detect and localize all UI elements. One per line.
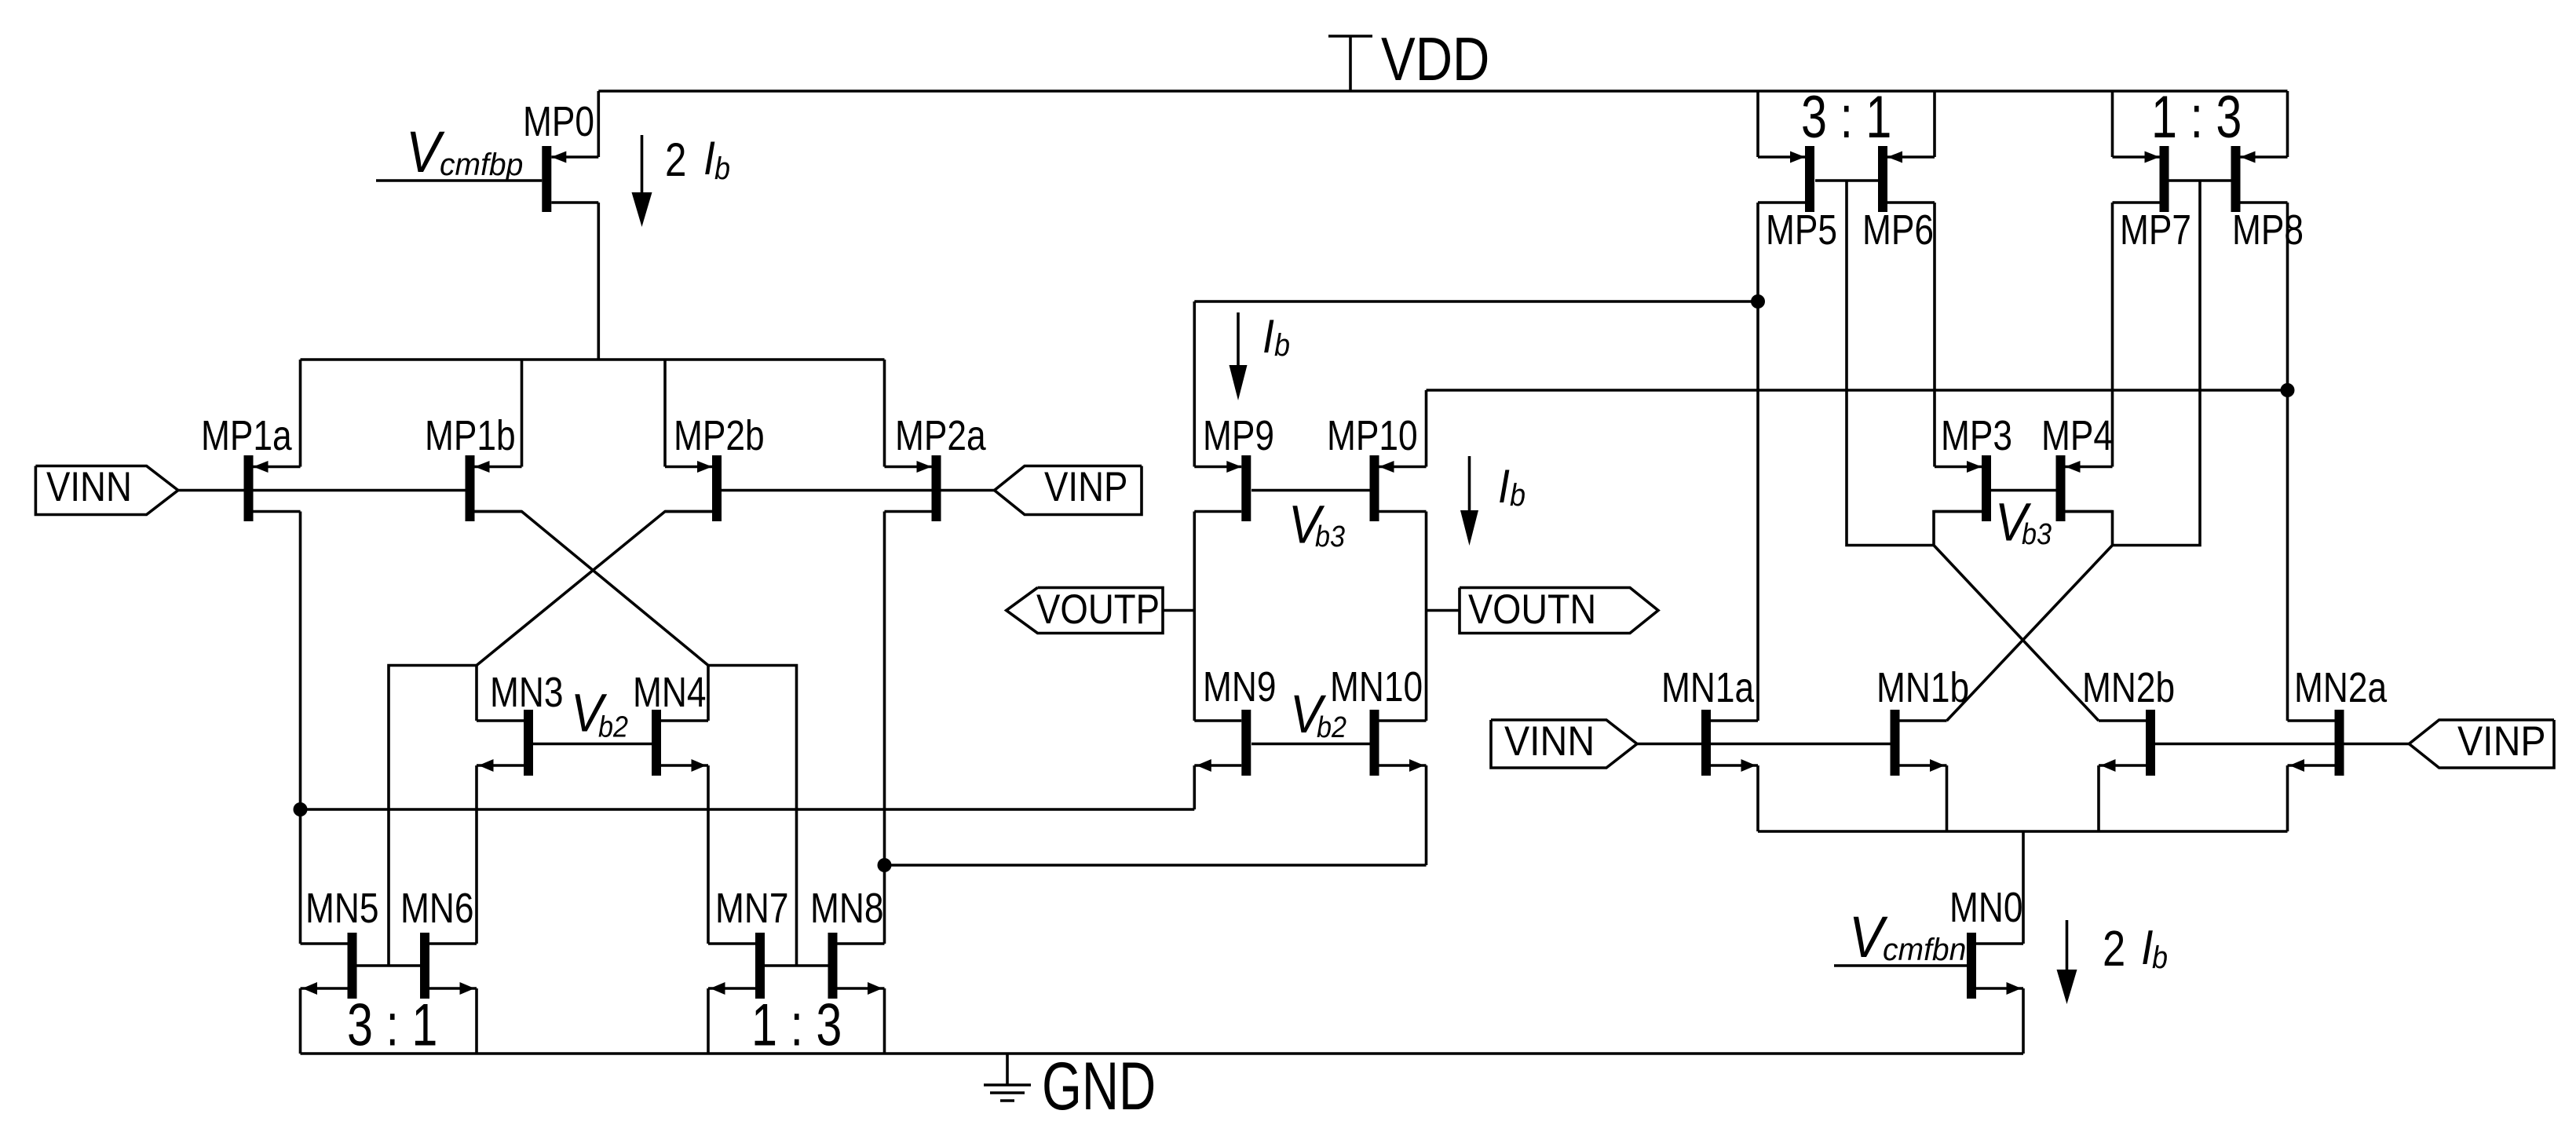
svg-text:b: b — [2152, 941, 2168, 975]
wire MN3 drain vertical — [475, 666, 478, 721]
port flag VOUTP — [1007, 586, 1163, 634]
svg-text:MP10: MP10 — [1327, 412, 1418, 459]
wire MP7 drain to MP4 source — [2111, 203, 2114, 467]
wire VDD drop to MP5 source — [1756, 91, 1759, 157]
svg-text:MP3: MP3 — [1941, 412, 2012, 459]
wire MP6 drain to MP3 source — [1933, 203, 1936, 467]
label Vb3 at MP3 MP4 — [1995, 492, 2052, 553]
power VDD symbol — [1328, 24, 1489, 93]
wire MP4 drain to MN1b drain diagonal — [1947, 512, 2113, 721]
junction dot node B — [878, 858, 892, 872]
wire VINP gate line left — [722, 489, 995, 492]
transistor MP9 — [1194, 412, 1274, 521]
wire MN2b source vertical — [2097, 765, 2100, 831]
wire MP2b source vertical — [663, 360, 667, 467]
current arrow Ib MP9 — [1230, 312, 1248, 400]
svg-text:b2: b2 — [598, 711, 628, 744]
svg-text:MN3: MN3 — [490, 669, 564, 716]
svg-text:1 : 3: 1 : 3 — [751, 992, 842, 1059]
svg-text:I: I — [1498, 460, 1510, 513]
label ratio 1:3 top — [2151, 84, 2242, 151]
svg-text:MP0: MP0 — [523, 98, 594, 145]
label 2Ib left — [665, 132, 730, 186]
wire VINP gate line right — [2155, 743, 2409, 746]
wire MP10 drain to MN10 drain (VOUTN node) — [1425, 512, 1428, 721]
transistor MN8 — [810, 885, 885, 999]
junction dot node D — [2281, 383, 2295, 397]
svg-text:VINP: VINP — [1044, 464, 1127, 510]
wire GND rail — [301, 1052, 2024, 1055]
wire MP9 drain to MN9 drain (VOUTP node) — [1193, 512, 1197, 721]
wire MP2b drain to MN3 drain diagonal — [477, 512, 712, 666]
svg-text:MN1b: MN1b — [1876, 664, 1969, 711]
label Vb3 at MP9 MP10 — [1288, 495, 1345, 555]
transistor MN10 — [1330, 663, 1427, 776]
port flag VINN right — [1491, 718, 1637, 768]
wire MN9/MN10 gate tie Vb2 — [1251, 743, 1370, 746]
wire MN5/MN6 gate tie — [357, 964, 421, 967]
wire MP1a source vertical — [299, 360, 302, 467]
wire MP0 gate (Vcmfbp) — [376, 179, 542, 182]
label 2Ib right — [2103, 920, 2168, 977]
wire right source bus — [1758, 830, 2288, 833]
wire MN2a source vertical — [2286, 765, 2289, 831]
current arrow 2Ib right — [2057, 920, 2077, 1004]
wire MP5 drain to MN1a drain — [1756, 203, 1759, 721]
wire MP3 drain to MN2b drain diagonal — [1934, 512, 2099, 721]
svg-text:b3: b3 — [1315, 520, 1345, 553]
svg-text:I: I — [703, 132, 715, 184]
wire MP9/MP10 gate tie Vb3 — [1251, 489, 1370, 492]
svg-text:MN0: MN0 — [1949, 884, 2023, 931]
label ratio 1:3 bottom — [751, 992, 842, 1059]
wire MN4 source to MN7 drain — [707, 765, 710, 944]
wire MP5/MP6 gate tie — [1815, 179, 1878, 182]
transistor MN0 — [1949, 884, 2023, 999]
svg-text:1 : 3: 1 : 3 — [2151, 84, 2242, 151]
wire MN7/MN8 gate tie — [765, 964, 828, 967]
wire VINN gate line left — [178, 489, 466, 492]
svg-text:MP7: MP7 — [2120, 206, 2191, 254]
svg-text:VDD: VDD — [1381, 24, 1489, 93]
transistor MN1a — [1661, 664, 1758, 776]
svg-text:2: 2 — [2103, 920, 2125, 977]
wire left source bus — [301, 358, 885, 361]
transistor MP2a — [885, 412, 987, 521]
wire MN4 drain node to MN7/8 gates — [708, 666, 797, 966]
wire MP0 drain to source bus — [597, 203, 600, 360]
label ratio 3:1 top — [1801, 84, 1891, 151]
wire MN10 source link to MN8 drain — [885, 864, 1427, 867]
transistor MP6 — [1862, 146, 1935, 254]
svg-text:VOUTP: VOUTP — [1036, 586, 1160, 633]
svg-text:MN7: MN7 — [715, 885, 789, 932]
transistor MP10 — [1327, 412, 1427, 521]
transistor MN2a — [2288, 664, 2388, 776]
transistor MP1b — [425, 412, 522, 521]
transistor MN6 — [400, 885, 477, 999]
wire MN4 drain vertical — [707, 666, 710, 721]
transistor MN1b — [1876, 664, 1969, 776]
transistor MN9 — [1194, 663, 1276, 776]
wire MN0 source vertical — [2022, 988, 2025, 1054]
transistor MP0 — [523, 98, 598, 212]
svg-text:VINP: VINP — [2457, 718, 2546, 765]
svg-text:2: 2 — [665, 133, 686, 186]
wire MN0 gate (Vcmfbn) — [1834, 964, 1967, 967]
svg-text:3 : 1: 3 : 1 — [347, 992, 437, 1059]
wire MP2a source vertical — [883, 360, 886, 467]
wire VDD rail — [598, 89, 2287, 93]
svg-text:MP1a: MP1a — [201, 412, 292, 459]
svg-text:VINN: VINN — [46, 464, 132, 510]
port flag VINP right — [2409, 718, 2554, 768]
transistor MP5 — [1758, 146, 1837, 254]
wire MP7/8 gates to MP4 drain node — [2113, 181, 2201, 546]
svg-text:MN9: MN9 — [1203, 663, 1277, 710]
svg-text:3 : 1: 3 : 1 — [1801, 84, 1891, 151]
wire MP8 drain link to MP10 source — [1427, 389, 2288, 392]
wire MN1b source vertical — [1946, 765, 1949, 831]
wire VDD drop to MP6 source — [1933, 91, 1936, 157]
transistor MN2b — [2082, 664, 2175, 776]
svg-text:MP2b: MP2b — [674, 412, 765, 459]
svg-text:GND: GND — [1042, 1049, 1156, 1124]
svg-text:MP6: MP6 — [1862, 206, 1934, 254]
transistor MN7 — [708, 885, 789, 999]
wire MN3 source to MN6 drain — [475, 765, 478, 944]
transistor MN5 — [301, 885, 379, 999]
wire MN3 drain node to MN5/6 gates — [389, 666, 477, 966]
wire VOUTP stub — [1163, 609, 1194, 612]
svg-text:b3: b3 — [2022, 518, 2052, 551]
svg-text:b: b — [1274, 328, 1290, 363]
svg-text:MN6: MN6 — [400, 885, 474, 932]
svg-text:cmfbp: cmfbp — [440, 148, 523, 182]
transistor MP7 — [2113, 146, 2192, 254]
svg-text:I: I — [1262, 310, 1274, 363]
svg-text:MP4: MP4 — [2041, 412, 2113, 459]
label GND — [1042, 1049, 1156, 1124]
wire MN5 source vertical — [299, 988, 302, 1054]
label Ib MP9 — [1262, 310, 1290, 363]
svg-text:MN2b: MN2b — [2082, 664, 2175, 711]
wire MP0 source to VDD rail — [597, 91, 600, 157]
wire MP3/MP4 gate tie Vb3 — [1991, 489, 2056, 492]
current arrow Ib MP10 — [1460, 456, 1478, 546]
wire VOUTN stub — [1427, 609, 1460, 612]
wire MN5 drain vertical — [299, 809, 302, 944]
svg-text:MP2a: MP2a — [895, 412, 986, 459]
svg-text:VINN: VINN — [1504, 718, 1595, 765]
svg-text:MN8: MN8 — [810, 885, 884, 932]
current arrow 2Ib left — [632, 135, 652, 227]
svg-text:cmfbn: cmfbn — [1883, 933, 1966, 967]
svg-text:b: b — [714, 152, 730, 186]
transistor MP3 — [1935, 412, 2012, 521]
wire MP7/MP8 gate tie — [2169, 179, 2231, 182]
svg-text:MP9: MP9 — [1203, 412, 1274, 459]
transistor MN3 — [477, 669, 564, 776]
svg-text:MN1a: MN1a — [1661, 664, 1755, 711]
svg-text:MN2a: MN2a — [2294, 664, 2388, 711]
label ratio 3:1 bottom — [347, 992, 437, 1059]
wire MP10 source vertical — [1425, 390, 1428, 467]
svg-text:MN10: MN10 — [1330, 663, 1423, 710]
port flag VOUTN — [1460, 586, 1658, 634]
wire MP8 drain to MN2a drain — [2286, 203, 2289, 721]
transistor MP8 — [2231, 146, 2304, 254]
ground GND symbol — [984, 1054, 1031, 1101]
port flag VINP left — [995, 464, 1142, 515]
svg-text:MP5: MP5 — [1766, 206, 1837, 254]
wire MN0 drain vertical — [2022, 831, 2025, 944]
wire VDD rail to MP8 source — [2286, 91, 2289, 157]
wire MP1b source vertical — [521, 360, 524, 467]
junction dot node C — [1751, 294, 1765, 309]
junction dot node A — [294, 802, 308, 816]
port flag VINN left — [35, 464, 177, 515]
transistor MN4 — [633, 669, 708, 776]
label Vcmfbp — [406, 119, 523, 184]
transistor MP1a — [201, 412, 301, 521]
svg-text:MN5: MN5 — [305, 885, 379, 932]
transistor MP2b — [665, 412, 765, 521]
wire MP1b drain to MN4 drain diagonal — [475, 512, 709, 666]
wire VDD drop to MP7 source — [2111, 91, 2114, 157]
wire MP9 source vertical — [1193, 301, 1197, 467]
wire node A bus to MN9 source — [301, 808, 1195, 811]
svg-text:MP8: MP8 — [2232, 206, 2304, 254]
wire MP5/6 gates to MP3 drain node — [1847, 181, 1934, 546]
wire MN10 source vertical — [1425, 765, 1428, 865]
svg-text:VOUTN: VOUTN — [1468, 586, 1596, 633]
label Ib MP10 — [1498, 460, 1526, 513]
svg-text:MN4: MN4 — [633, 669, 707, 716]
svg-text:b2: b2 — [1317, 711, 1346, 744]
wire MN9 source vertical — [1193, 765, 1197, 809]
label Vcmfbn — [1849, 904, 1966, 970]
wire MN8 source vertical — [883, 988, 886, 1054]
wire MP5 drain link to MP9 source — [1194, 300, 1758, 303]
label Vb2 at MN3 MN4 — [571, 683, 628, 744]
label Vb2 at MN9 MN10 — [1290, 684, 1346, 744]
wire VINN gate line right — [1637, 743, 1891, 746]
wire MN3/MN4 gate tie Vb2 — [533, 743, 652, 746]
wire MN7 source vertical — [707, 988, 710, 1054]
svg-text:b: b — [1510, 478, 1526, 513]
wire MP2a drain to MN8 drain — [883, 512, 886, 944]
wire MN6 source vertical — [475, 988, 478, 1054]
transistor MP4 — [2041, 412, 2113, 521]
wire MN1a source vertical — [1756, 765, 1759, 831]
wire MP1a drain vertical — [299, 512, 302, 810]
svg-text:MP1b: MP1b — [425, 412, 516, 459]
